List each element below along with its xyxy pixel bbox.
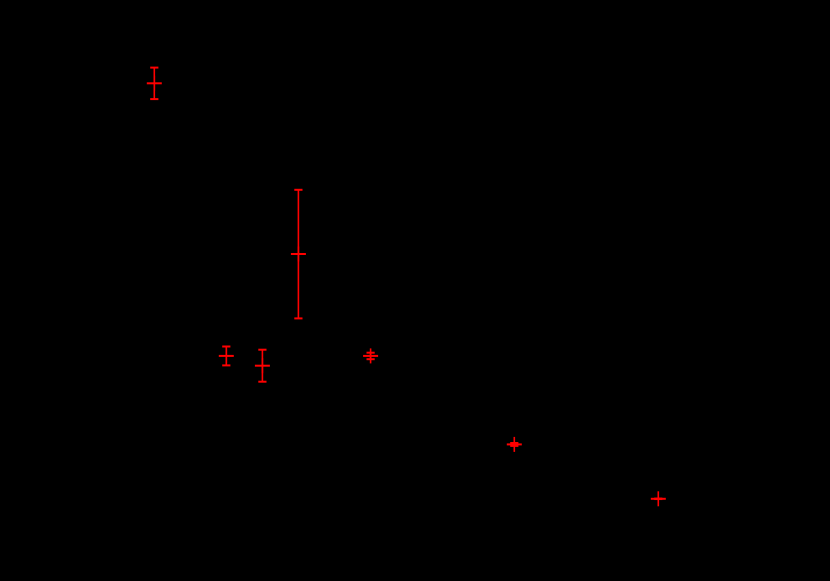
data point 5 error bar <box>363 348 378 363</box>
data point 6 error bar <box>507 437 522 452</box>
data point 1 error bar <box>147 68 162 100</box>
data point 7 error bar <box>651 491 666 506</box>
data point 2 error bar <box>291 190 306 319</box>
data point 4 error bar <box>255 350 270 382</box>
data point 3 error bar <box>219 347 234 366</box>
